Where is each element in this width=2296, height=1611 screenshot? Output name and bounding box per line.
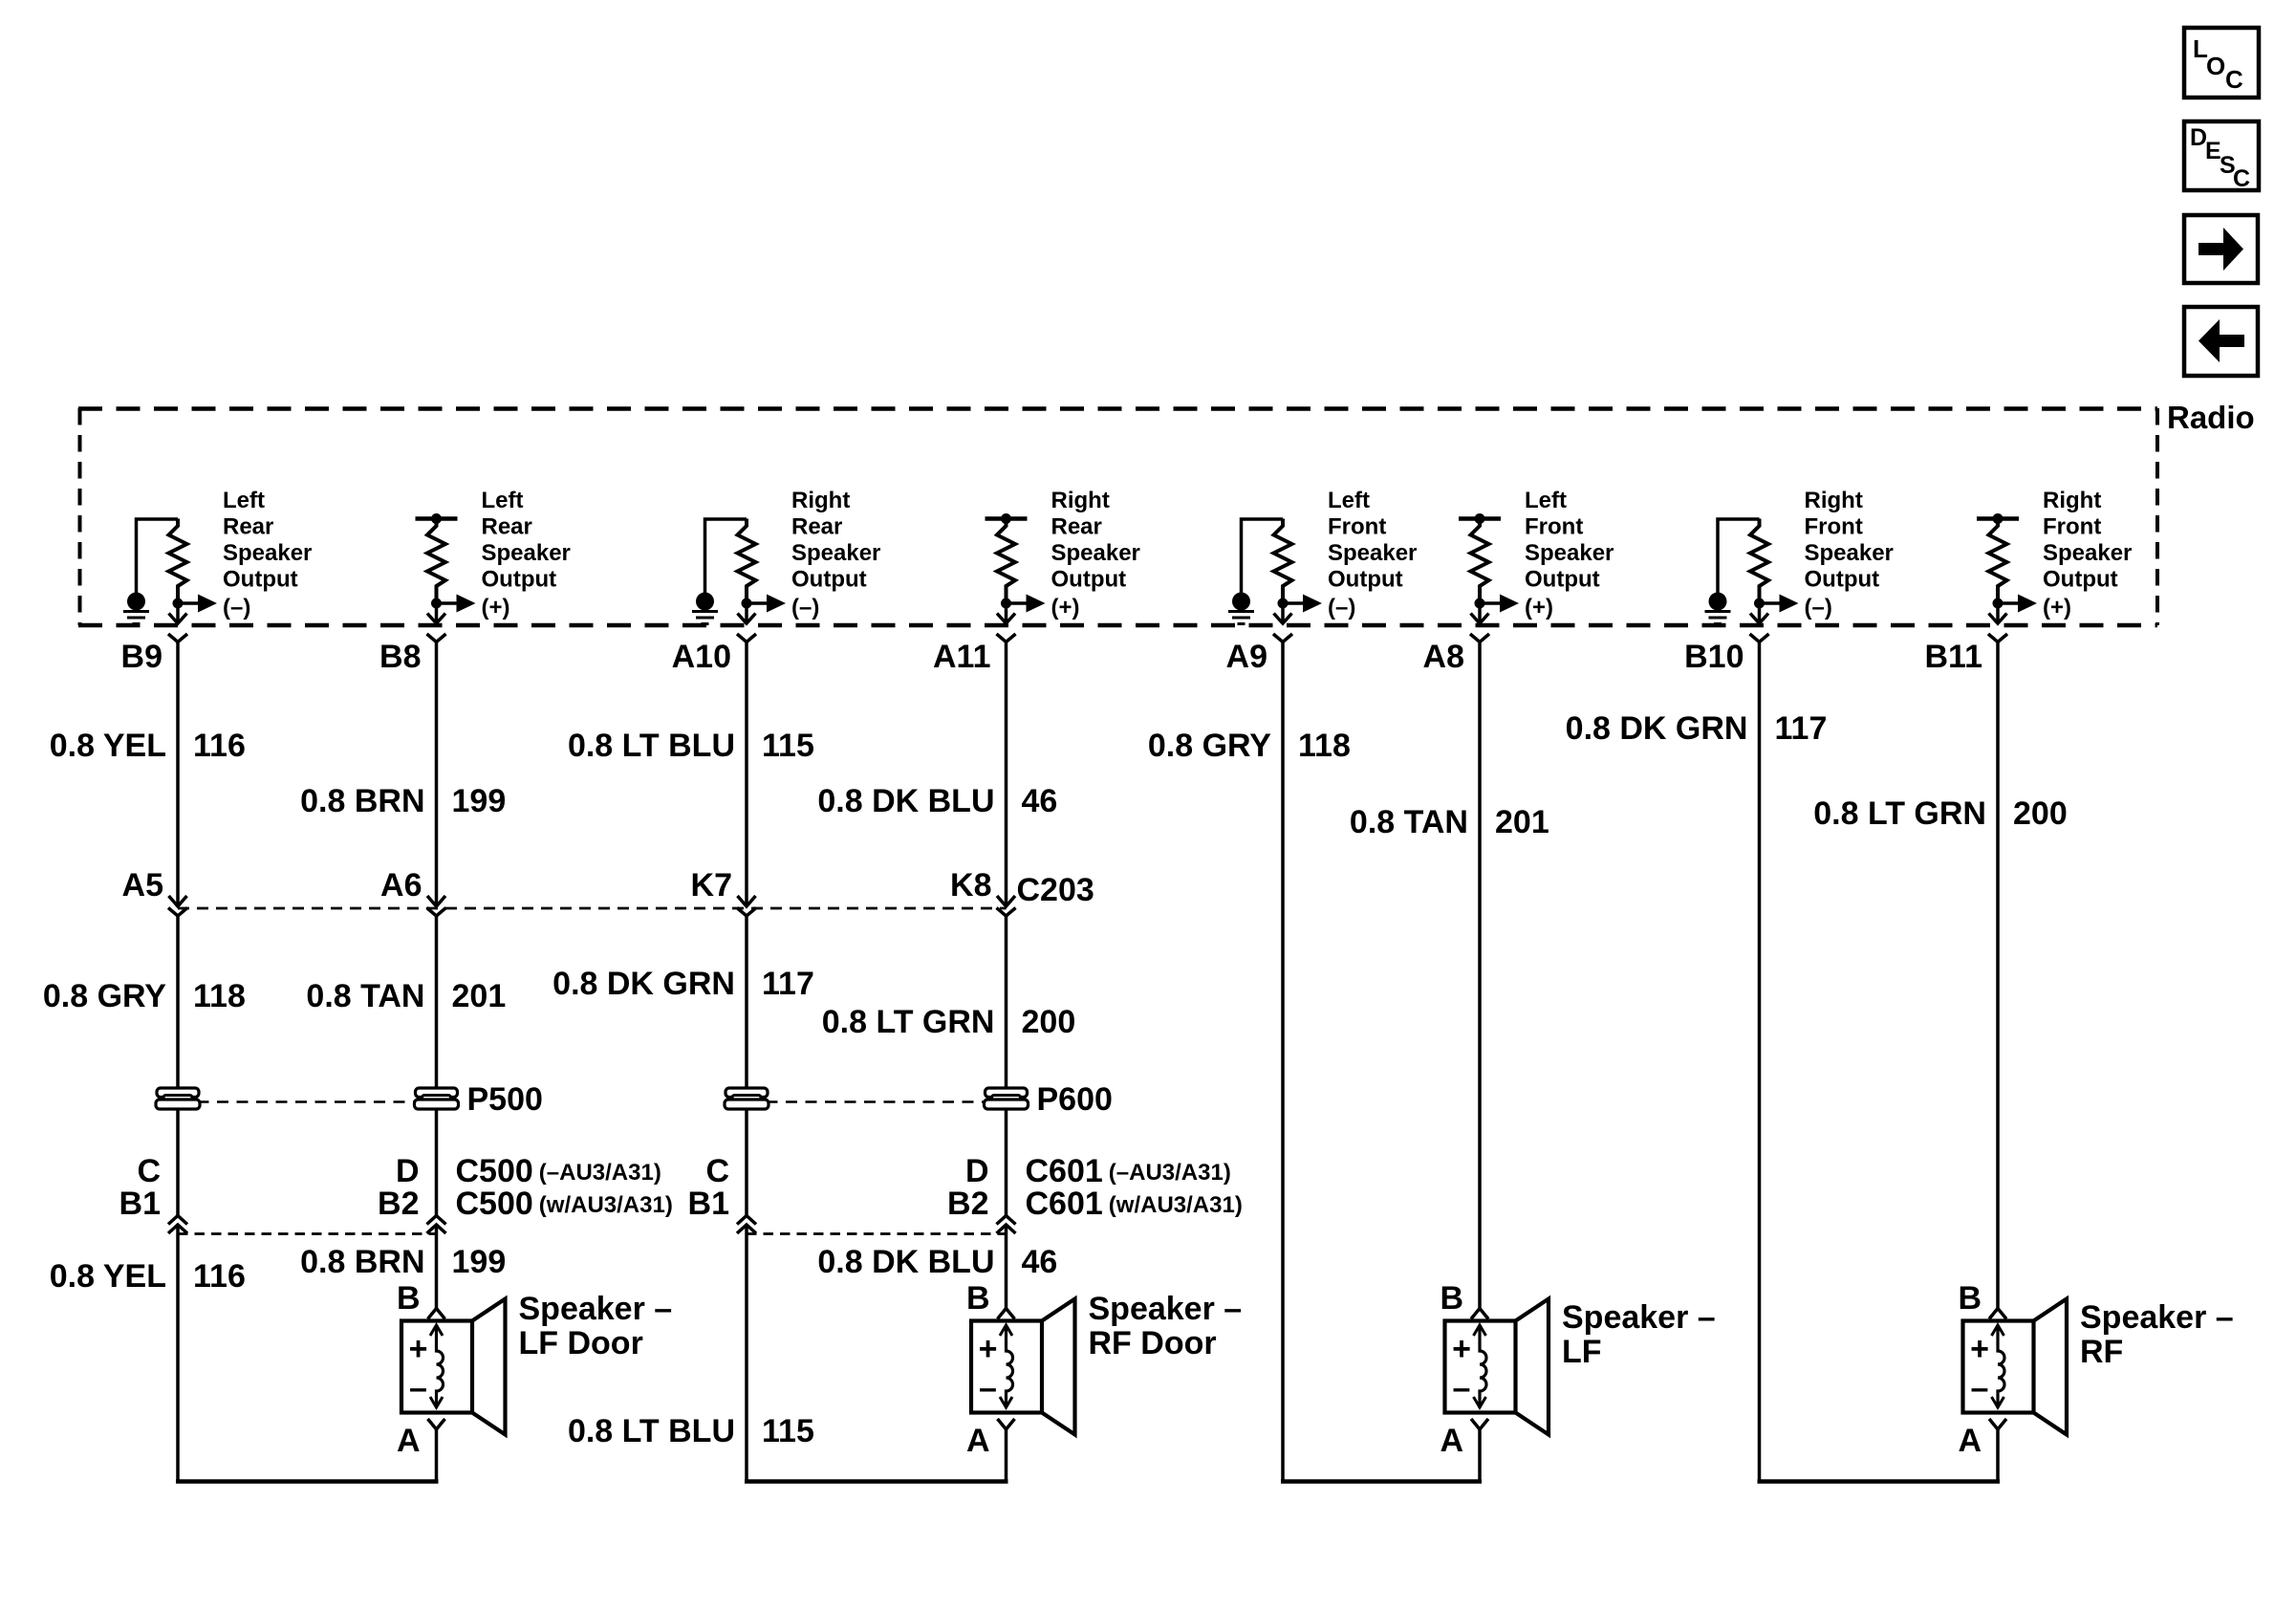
- svg-text:B8: B8: [379, 639, 421, 675]
- svg-text:46: 46: [1022, 1244, 1058, 1280]
- svg-text:–: –: [979, 1370, 997, 1406]
- svg-text:B11: B11: [1925, 639, 1983, 675]
- svg-text:A: A: [1958, 1423, 1982, 1459]
- grommet P500 on wire B8: [415, 1088, 459, 1109]
- svg-text:+: +: [1970, 1331, 1989, 1367]
- svg-text:0.8 BRN: 0.8 BRN: [300, 1244, 424, 1280]
- wire from ground to resistor B10: [1718, 519, 1760, 601]
- svg-text:0.8 DK BLU: 0.8 DK BLU: [817, 783, 994, 819]
- wire B11 to speaker RF terminal B (0.8 LT GRN 200): [1996, 642, 2000, 1309]
- signal arrow A10: [747, 595, 786, 613]
- wire label 0.8 YEL 116: [50, 728, 246, 764]
- wire label 0.8 LT BLU 115: [568, 728, 814, 764]
- junction below resistor A10: [742, 599, 752, 609]
- svg-text:0.8 DK GRN: 0.8 DK GRN: [552, 966, 735, 1002]
- resistor (radio left rear output B8): [427, 519, 445, 604]
- svg-text:118: 118: [1298, 728, 1351, 764]
- wire A11 to connector K8 (0.8 DK BLU 46): [1005, 642, 1008, 907]
- connector C203 terminal A6 (arrow and chevron): [427, 896, 446, 916]
- svg-text:200: 200: [1022, 1004, 1076, 1040]
- svg-text:C: C: [705, 1153, 729, 1189]
- resistor (radio right front output B11): [1989, 519, 2007, 604]
- svg-text:A8: A8: [1423, 639, 1464, 675]
- svg-text:+: +: [409, 1331, 428, 1367]
- wire label 0.8 YEL 116 (below C500): [50, 1258, 246, 1295]
- ground (chassis) for B9 output: [123, 593, 149, 624]
- wire from junction to pin B10: [1758, 603, 1762, 621]
- speaker LF Door voice coil: [430, 1325, 444, 1408]
- junction below resistor B8: [431, 599, 442, 609]
- speaker RF voice coil: [1992, 1325, 2005, 1408]
- svg-text:P600: P600: [1037, 1081, 1113, 1118]
- forward arrow legend box: [2184, 215, 2258, 283]
- wire from speaker RF Door terminal A to return rail: [1005, 1429, 1008, 1483]
- svg-text:116: 116: [193, 728, 246, 764]
- svg-text:Radio: Radio: [2167, 400, 2255, 435]
- speaker terminal A (LF): [1440, 1419, 1488, 1459]
- svg-text:201: 201: [452, 978, 507, 1014]
- connector C500 (dashed in-line connector): [178, 1232, 437, 1235]
- node bar at top of B8 resistor: [416, 513, 458, 524]
- signal arrow B11: [1998, 595, 2037, 613]
- svg-text:A: A: [397, 1423, 421, 1459]
- resistor (radio right rear output A10): [738, 519, 756, 604]
- wire B10 to speaker RF rail (0.8 DK GRN 117): [1758, 642, 1762, 1484]
- svg-text:A9: A9: [1226, 639, 1267, 675]
- wire from speaker LF Door terminal A to return rail: [435, 1429, 439, 1483]
- connector C203 terminal K8 (arrow and chevron): [997, 896, 1016, 916]
- resistor (radio left front output A8): [1471, 519, 1489, 604]
- svg-text:B: B: [966, 1280, 990, 1317]
- wire label 0.8 DK GRN 117 (below C203): [552, 966, 814, 1002]
- wire B2 to RF Door speaker terminal B (0.8 DK BLU 46): [1005, 1225, 1008, 1309]
- speaker LF voice coil: [1474, 1325, 1487, 1408]
- svg-text:B: B: [1440, 1280, 1463, 1317]
- svg-text:+: +: [1452, 1331, 1471, 1367]
- svg-text:–: –: [1453, 1370, 1471, 1406]
- svg-text:117: 117: [1775, 710, 1828, 747]
- connector C203 terminal A5 (arrow and chevron): [168, 896, 187, 916]
- resistor (radio left rear output B9): [169, 519, 187, 604]
- wire B9 to connector A5 (0.8 YEL 116): [176, 642, 180, 907]
- svg-text:200: 200: [2013, 795, 2068, 832]
- svg-text:A5: A5: [122, 867, 163, 903]
- return wire rail for speaker RF Door: [745, 1479, 1008, 1484]
- junction below resistor B11: [1993, 599, 2004, 609]
- grommet pass-through link P600 (dashed): [747, 1100, 1007, 1103]
- speaker LF body: [1445, 1299, 1549, 1435]
- wire 0.8 LT GRN 200 from connector to grommet/C500 row: [1005, 916, 1008, 1215]
- speaker LF Door body: [401, 1299, 506, 1435]
- pin A8 connector (arrowhead and chevron at radio border): [1470, 614, 1489, 642]
- svg-text:C: C: [137, 1153, 161, 1189]
- wire from junction to pin A10: [745, 603, 748, 621]
- pin B8 connector (arrowhead and chevron at radio border): [427, 614, 446, 642]
- wire from junction to pin B11: [1996, 603, 2000, 621]
- wire label 0.8 BRN 199 (below C500): [300, 1244, 506, 1280]
- svg-text:O: O: [2206, 52, 2225, 80]
- speaker terminal A (RF): [1958, 1419, 2006, 1459]
- svg-text:A: A: [1440, 1423, 1463, 1459]
- svg-text:A: A: [966, 1423, 990, 1459]
- pin A11 connector (arrowhead and chevron at radio border): [997, 614, 1016, 642]
- resistor (radio right rear output A11): [997, 519, 1015, 604]
- connector C203 (dashed in-line connector): [178, 907, 1007, 910]
- return wire rail for speaker LF Door: [176, 1479, 439, 1484]
- wire A10 to connector K7 (0.8 LT BLU 115): [745, 642, 748, 907]
- svg-text:0.8 LT BLU: 0.8 LT BLU: [568, 728, 735, 764]
- svg-text:0.8 BRN: 0.8 BRN: [300, 783, 424, 819]
- svg-text:0.8 DK BLU: 0.8 DK BLU: [817, 1244, 994, 1280]
- svg-text:199: 199: [452, 783, 507, 819]
- wire label 0.8 TAN 201: [1350, 804, 1549, 840]
- back arrow legend box: [2184, 307, 2258, 376]
- return wire rail for speaker RF: [1758, 1479, 2001, 1484]
- svg-text:B2: B2: [947, 1186, 988, 1222]
- wire label 0.8 LT GRN 200: [1813, 795, 2067, 832]
- pin B9 connector (arrowhead and chevron at radio border): [168, 614, 187, 642]
- svg-text:115: 115: [762, 1413, 814, 1449]
- wire B8 to connector A6 (0.8 BRN 199): [435, 642, 439, 907]
- wire from junction to pin A9: [1281, 603, 1285, 621]
- pin B10 connector (arrowhead and chevron at radio border): [1750, 614, 1769, 642]
- grommet P600 on wire A11: [985, 1088, 1029, 1109]
- svg-text:0.8 LT BLU: 0.8 LT BLU: [568, 1413, 735, 1449]
- resistor (radio right front output B10): [1750, 519, 1768, 604]
- speaker RF Door body: [971, 1299, 1075, 1435]
- svg-text:199: 199: [452, 1244, 507, 1280]
- connector C500 terminal D/B2 (chevron and arrow): [427, 1216, 446, 1234]
- svg-text:118: 118: [193, 978, 246, 1014]
- wire label 0.8 GRY 118: [1148, 728, 1351, 764]
- svg-text:117: 117: [762, 966, 814, 1002]
- speaker terminal B (RF): [1958, 1280, 2006, 1319]
- svg-text:–: –: [409, 1370, 427, 1406]
- pin B11 connector (arrowhead and chevron at radio border): [1988, 614, 2007, 642]
- junction below resistor B10: [1754, 599, 1765, 609]
- wire label 0.8 DK GRN 117: [1566, 710, 1828, 747]
- svg-text:B10: B10: [1684, 639, 1744, 675]
- svg-text:B9: B9: [121, 639, 162, 675]
- svg-text:115: 115: [762, 728, 814, 764]
- svg-text:201: 201: [1495, 804, 1549, 840]
- return wire rail for speaker LF: [1281, 1479, 1482, 1484]
- wire label 0.8 DK BLU 46 (below C601): [817, 1244, 1057, 1280]
- svg-text:A6: A6: [380, 867, 422, 903]
- speaker terminal B (LF): [1440, 1280, 1488, 1319]
- svg-text:–: –: [1971, 1370, 1989, 1406]
- connector C601 terminal D/B2 (chevron and arrow): [997, 1216, 1016, 1234]
- svg-text:D: D: [396, 1153, 420, 1189]
- svg-text:C: C: [2225, 65, 2243, 94]
- svg-text:B: B: [397, 1280, 421, 1317]
- pin A10 connector (arrowhead and chevron at radio border): [737, 614, 756, 642]
- svg-text:0.8 LT GRN: 0.8 LT GRN: [1813, 795, 1986, 832]
- resistor (radio left front output A9): [1274, 519, 1292, 604]
- ground (chassis) for A10 output: [692, 593, 718, 624]
- speaker RF body: [1963, 1299, 2068, 1435]
- svg-text:+: +: [979, 1331, 998, 1367]
- signal arrow A11: [1007, 595, 1046, 613]
- wire label 0.8 TAN 201 (below C203): [306, 978, 506, 1014]
- wire from ground to resistor A10: [705, 519, 747, 601]
- svg-text:A10: A10: [672, 639, 731, 675]
- svg-text:0.8 LT GRN: 0.8 LT GRN: [822, 1004, 995, 1040]
- svg-text:A11: A11: [933, 639, 991, 675]
- wire label 0.8 LT BLU 115 (speaker return): [568, 1413, 814, 1449]
- signal arrow B9: [178, 595, 217, 613]
- junction below resistor A8: [1475, 599, 1485, 609]
- grommet pass-through link P500 (dashed): [178, 1100, 437, 1103]
- svg-text:P500: P500: [467, 1081, 543, 1118]
- wire 0.8 TAN 201 from connector to grommet/C500 row: [435, 916, 439, 1215]
- svg-text:116: 116: [193, 1258, 246, 1295]
- connector C203 terminal K7 (arrow and chevron): [737, 896, 756, 916]
- svg-text:46: 46: [1022, 783, 1058, 819]
- signal arrow B8: [437, 595, 476, 613]
- wire from junction to pin B9: [176, 603, 180, 621]
- svg-text:B1: B1: [688, 1186, 729, 1222]
- wire from junction to pin A11: [1005, 603, 1008, 621]
- speaker terminal B (RF Door): [966, 1280, 1015, 1319]
- LOC legend box: [2184, 28, 2259, 98]
- speaker terminal A (LF Door): [397, 1419, 445, 1459]
- svg-text:0.8 TAN: 0.8 TAN: [306, 978, 424, 1014]
- grommet P600 on wire A10: [725, 1088, 769, 1109]
- svg-text:C203: C203: [1017, 872, 1094, 908]
- svg-text:B: B: [1958, 1280, 1982, 1317]
- signal arrow A8: [1480, 595, 1519, 613]
- svg-text:0.8 TAN: 0.8 TAN: [1350, 804, 1468, 840]
- connector C601 terminal C/B1 (chevron and arrow): [737, 1216, 756, 1234]
- node bar at top of A11 resistor: [986, 513, 1028, 524]
- svg-text:B1: B1: [119, 1186, 161, 1222]
- ground (chassis) for A9 output: [1228, 593, 1254, 624]
- wire from junction to pin A8: [1478, 603, 1482, 621]
- svg-text:K8: K8: [950, 867, 991, 903]
- wire A8 to speaker LF terminal B (0.8 TAN 201): [1478, 642, 1482, 1309]
- speaker terminal B (LF Door): [397, 1280, 445, 1319]
- junction below resistor A9: [1278, 599, 1289, 609]
- wire label 0.8 LT GRN 200 (below C203): [822, 1004, 1075, 1040]
- wire from speaker RF terminal A to return rail: [1996, 1429, 2000, 1483]
- Radio enclosure (dashed box): [78, 408, 2157, 625]
- svg-text:0.8 DK GRN: 0.8 DK GRN: [1566, 710, 1748, 747]
- wire 0.8 DK GRN 117 from connector to grommet/C500 row: [745, 916, 748, 1215]
- ground (chassis) for B10 output: [1705, 593, 1731, 624]
- wire B1 to LF Door speaker loop (0.8 YEL 116): [176, 1225, 180, 1483]
- svg-text:0.8 YEL: 0.8 YEL: [50, 1258, 166, 1295]
- svg-text:0.8 GRY: 0.8 GRY: [43, 978, 166, 1014]
- signal arrow B10: [1760, 595, 1799, 613]
- wire B2 to LF Door speaker terminal B (0.8 BRN 199): [435, 1225, 439, 1309]
- wire A9 to speaker LF rail (0.8 GRY 118): [1281, 642, 1285, 1484]
- svg-text:0.8 YEL: 0.8 YEL: [50, 728, 166, 764]
- speaker RF Door voice coil: [1000, 1325, 1013, 1408]
- speaker terminal A (RF Door): [966, 1419, 1015, 1459]
- connector C601 (dashed in-line connector): [747, 1232, 1007, 1235]
- wire label 0.8 DK BLU 46: [817, 783, 1057, 819]
- junction below resistor A11: [1001, 599, 1011, 609]
- wire from ground to resistor A9: [1242, 519, 1284, 601]
- wire B1 to RF Door speaker loop (0.8 LT BLU 115): [745, 1225, 748, 1483]
- connector C500 terminal C/B1 (chevron and arrow): [168, 1216, 187, 1234]
- svg-text:B2: B2: [378, 1186, 419, 1222]
- junction below resistor B9: [173, 599, 184, 609]
- DESC legend box: [2184, 121, 2259, 192]
- node bar at top of A8 resistor: [1459, 513, 1501, 524]
- svg-text:0.8 GRY: 0.8 GRY: [1148, 728, 1271, 764]
- signal arrow A9: [1283, 595, 1322, 613]
- node bar at top of B11 resistor: [1977, 513, 2019, 524]
- svg-text:C: C: [2233, 165, 2250, 192]
- wire 0.8 GRY 118 from connector to grommet/C500 row: [176, 916, 180, 1215]
- pin A9 connector (arrowhead and chevron at radio border): [1273, 614, 1292, 642]
- svg-text:D: D: [965, 1153, 989, 1189]
- wire from junction to pin B8: [435, 603, 439, 621]
- grommet P500 on wire B9: [156, 1088, 200, 1109]
- wire from speaker LF terminal A to return rail: [1478, 1429, 1482, 1483]
- wire from ground to resistor B9: [137, 519, 179, 601]
- wire label 0.8 GRY 118 (below C203): [43, 978, 246, 1014]
- svg-text:K7: K7: [691, 867, 732, 903]
- wire label 0.8 BRN 199: [300, 783, 506, 819]
